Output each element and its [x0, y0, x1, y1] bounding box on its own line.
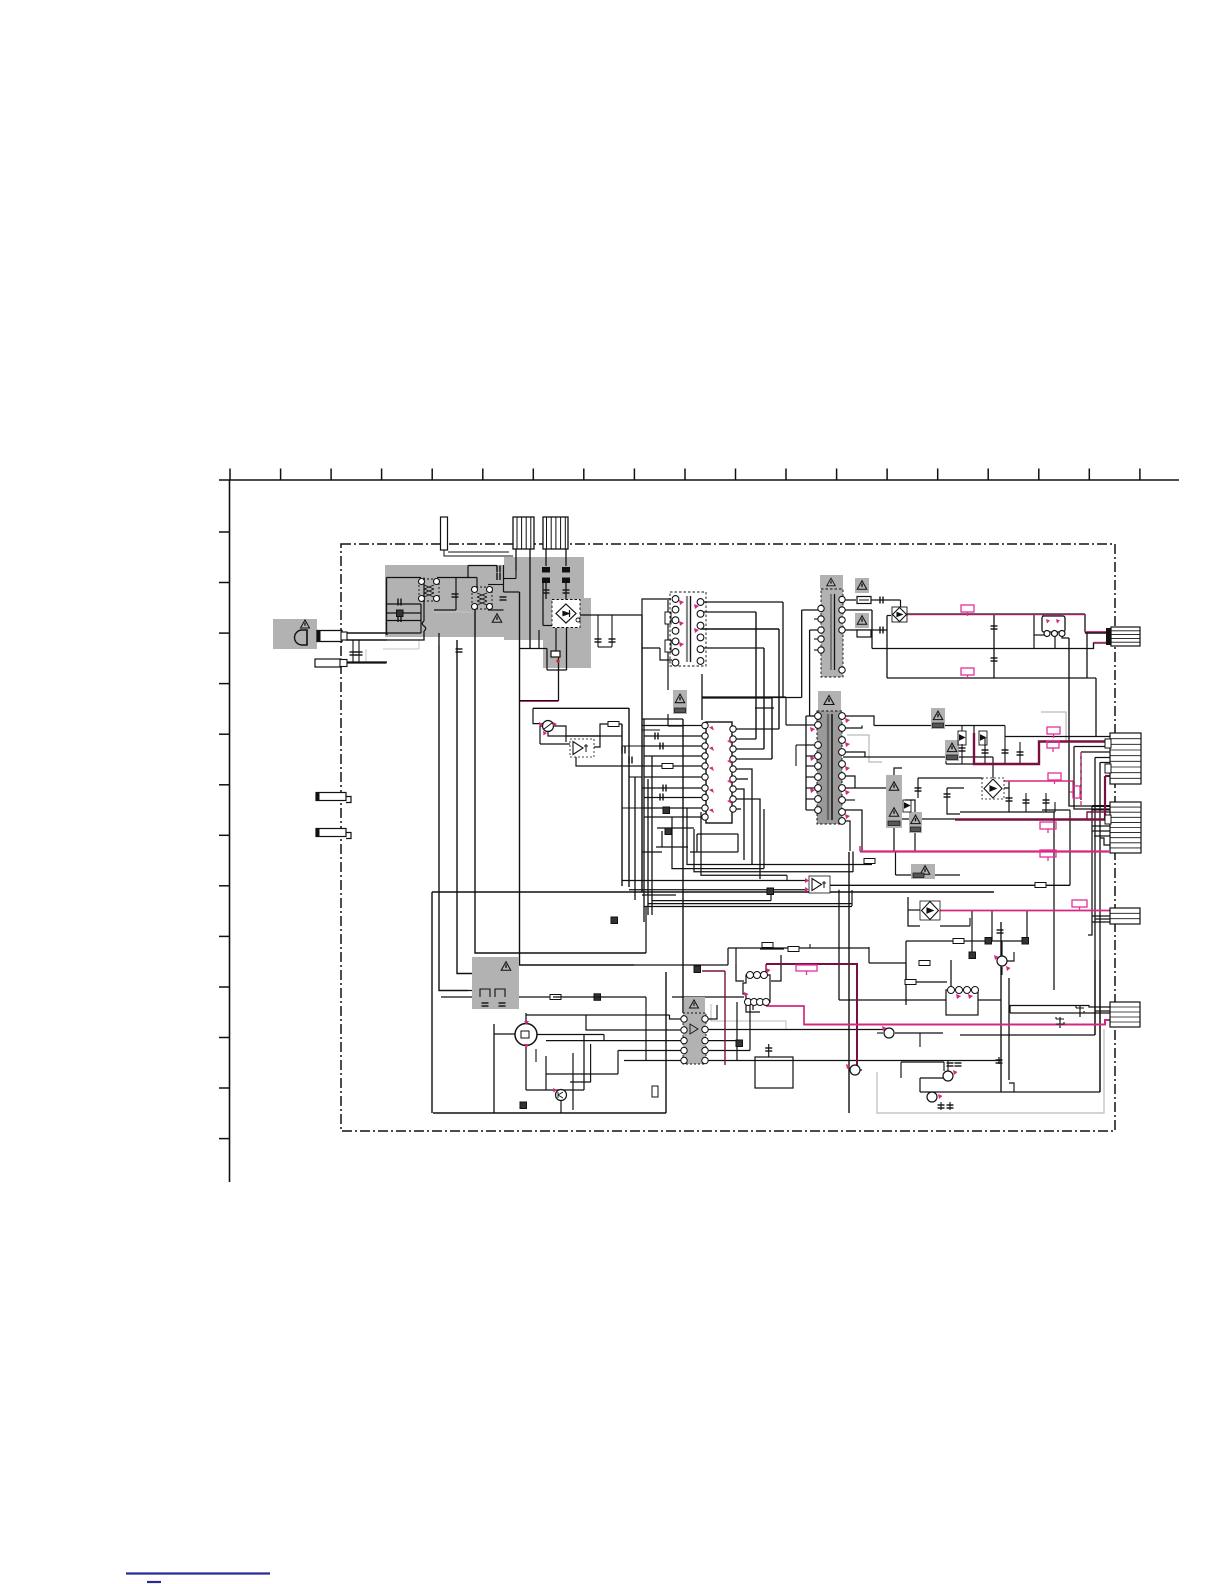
wire T601 L pin y725 — [806, 724, 818, 726]
capacitor — [499, 1003, 506, 1006]
wire y697.5 — [702, 697, 802, 699]
wire maroon v725 — [724, 971, 726, 1065]
capacitor LF2 out — [500, 597, 507, 600]
pink label (rail 2) — [1040, 850, 1056, 861]
wire D603 loop — [908, 897, 920, 926]
relay contact 1 — [1044, 631, 1050, 637]
warning box + fuse resistor R626 — [945, 740, 959, 761]
wire IC601 R4 — [733, 758, 772, 760]
wire Q603 stub — [919, 1033, 921, 1047]
wire rail 9V a — [843, 756, 946, 758]
capacitor on v994 b — [991, 658, 998, 661]
connector CN601 pin sep 4 — [530, 517, 532, 549]
pink label (rail 1) — [1040, 822, 1056, 833]
wire pink drop — [1072, 781, 1074, 786]
ruler left tick 8 — [219, 885, 230, 887]
wire T603 L pin2 — [802, 609, 821, 611]
wire into gray box 2 — [481, 973, 517, 975]
ruler top tick 16 — [987, 469, 989, 481]
wire y1000 row — [839, 999, 1001, 1001]
wire IC601 pin row L1 — [642, 725, 704, 727]
wire y997 row b — [553, 996, 646, 998]
wire y949 — [760, 948, 784, 950]
wire CN602 pin3 — [1074, 746, 1110, 748]
wire IC601 R2 — [733, 738, 756, 740]
ruler left tick 10 — [219, 986, 230, 988]
wire IC601 R7 drop — [733, 789, 744, 860]
diode (filled) — [665, 828, 672, 835]
wire y819 blk — [902, 818, 955, 820]
wire IC601 pin row L8 — [644, 797, 704, 799]
wire th in — [540, 725, 543, 727]
wire to D602 — [992, 757, 994, 779]
wire snub right — [737, 834, 739, 852]
wire C615 to bridge — [545, 583, 547, 599]
capacitor — [938, 1105, 945, 1108]
transistor Q607 — [997, 956, 1007, 966]
bridge diode D602 — [982, 778, 1004, 799]
diode (filled) — [767, 888, 774, 895]
wire y678 — [887, 677, 1087, 679]
wire v1034 — [1033, 614, 1035, 649]
wire T603 R2 — [843, 609, 872, 611]
wire v1070 — [1069, 810, 1071, 885]
wire CN602 pin1 — [1005, 736, 1110, 738]
wire v683 long to PC601 — [682, 719, 684, 1013]
capacitor — [563, 590, 570, 593]
wire filter left bus — [386, 578, 388, 636]
wire T601 R4 — [843, 752, 865, 757]
wire y778 link — [918, 777, 982, 779]
wire T601 link b — [796, 744, 806, 746]
wire zener1 drop — [1079, 1006, 1081, 1017]
wire cap drop b — [1004, 726, 1006, 738]
wire stair y889 — [629, 889, 806, 891]
wire v543 left of bridge — [542, 583, 544, 626]
wire gb drop2 — [501, 997, 503, 1009]
wire IC601 pin row L6 — [644, 776, 704, 778]
ruler top tick 13 — [836, 469, 838, 481]
pink label (5V) — [1047, 727, 1060, 738]
wire snubber bottom — [598, 646, 612, 648]
wire y678 ext — [1087, 677, 1096, 679]
wire y1035 — [960, 1034, 1095, 1036]
transformer T603 (gray) — [820, 575, 843, 589]
wire maroon: v857 drop — [766, 964, 857, 1066]
wire PC L5 feed — [624, 1060, 684, 1062]
gray block: relay driver area — [472, 957, 519, 1009]
ruler left tick 1 — [219, 531, 230, 533]
connector CN605 (right) — [1110, 908, 1140, 924]
wire v622 long — [621, 724, 623, 886]
connector CN602T pin sep 5 — [564, 517, 566, 549]
capacitor — [1043, 800, 1050, 803]
wire CN603 pin6 — [1092, 830, 1110, 832]
wire (shield 2, light) — [1041, 712, 1066, 741]
wire v783 — [782, 602, 784, 698]
wire v972 ext — [971, 941, 973, 956]
wire bridge plus out — [580, 614, 590, 616]
wire v1087 — [1086, 633, 1088, 679]
wire filter top bus 2 — [437, 577, 477, 579]
wire y948b — [728, 947, 810, 949]
gray block: AC line filter area — [385, 565, 521, 637]
wire maroon stub 2 — [765, 964, 767, 975]
wire zener stub — [969, 918, 971, 926]
wire y719 row — [642, 718, 683, 720]
wire Q607 out — [1007, 952, 1014, 961]
capacitor — [622, 747, 625, 754]
wire Q604 base — [920, 1077, 943, 1079]
wire y1090 — [526, 1089, 584, 1091]
connector CN601R line 1 — [1111, 630, 1140, 632]
capacitor — [915, 788, 922, 791]
warning box (comparator area) — [911, 864, 935, 879]
wire AC inlet to cord — [317, 634, 346, 636]
resistor — [905, 980, 916, 985]
wire (earth drop 2, light) — [365, 649, 367, 662]
wire row ext 1 — [622, 745, 642, 747]
wire v666 up — [665, 972, 667, 1113]
wire C616 to bridge — [565, 583, 567, 604]
wire v1081 — [1080, 752, 1082, 800]
diode (filled) — [969, 952, 976, 959]
wire row ext 2 — [629, 776, 642, 778]
wire fuse to PH601 — [869, 599, 901, 601]
capacitor — [947, 1063, 954, 1066]
wire v668 to R startup — [667, 600, 669, 690]
wire v853 — [852, 852, 854, 873]
wire stair y906 — [644, 906, 852, 908]
wire AC L inside — [387, 632, 421, 634]
wire elbow v1009 to y1092 — [1009, 1083, 1014, 1092]
wire v590 — [590, 1044, 592, 1082]
wire main bus B — [457, 640, 481, 974]
wire D602 left — [947, 787, 964, 789]
capacitor — [1006, 798, 1013, 801]
pink label (12V) — [796, 965, 817, 975]
wire maroon: branch to CN603 pin2 — [1087, 812, 1110, 820]
ruler left tick 5 — [219, 733, 230, 735]
wire AC line N — [346, 639, 387, 641]
wire rail 5V c — [962, 725, 1005, 727]
wire thermal fuse out — [558, 657, 560, 658]
wire CN603 pin5 — [1092, 825, 1110, 827]
wire T603 L pin3 stub — [814, 618, 821, 620]
wire to R627 — [843, 787, 886, 789]
pink label (CN601R a) — [961, 605, 974, 616]
transistor Q603 — [884, 1028, 894, 1038]
capacitor C616 (plates) — [562, 567, 570, 573]
wire y764 gnd rail — [946, 763, 1039, 765]
photocoupler diamond PH601 — [892, 607, 907, 622]
AC degauss plug lower — [315, 659, 341, 667]
wire cap drop b2 — [1004, 737, 1006, 764]
diode (filled) — [663, 807, 670, 814]
wire R startup out — [667, 714, 669, 726]
wire (chassis earth, light) — [383, 648, 419, 650]
wire cap row 2 — [387, 612, 422, 614]
wire y648 stub — [642, 647, 660, 649]
ruler left tick 7 — [219, 834, 230, 836]
wire main bus A — [439, 645, 468, 991]
wire gnd stub up — [945, 752, 947, 764]
wire T601 L pin y799 — [806, 798, 818, 800]
wire IC601 R8 drop — [733, 799, 760, 879]
wire CN602 pin1 drop — [545, 549, 547, 566]
diode (filled) — [611, 917, 618, 924]
wire IC602 gnd — [752, 1002, 754, 1010]
wire v573 — [572, 1053, 574, 1110]
wire into relay driver — [468, 990, 517, 992]
fuse resistor (top) — [857, 597, 871, 604]
wire CN602 pin4 — [1081, 751, 1110, 753]
wire PC R1 up — [705, 1005, 717, 1019]
wire v869 — [868, 947, 870, 963]
wire v728 — [727, 948, 729, 965]
wire top link 2 — [448, 551, 509, 553]
relay contact 3 — [1059, 631, 1065, 637]
wire T601 R1 to rail — [843, 716, 874, 726]
wire pink over CN601R b — [1094, 641, 1108, 643]
AC power plug P601 — [295, 630, 307, 645]
wire v1074 to CN603 — [1074, 747, 1110, 810]
IC602 regulator — [743, 975, 770, 1002]
wire IC601 pin row L3 — [642, 745, 704, 747]
wire v547 — [546, 649, 548, 671]
warning triangle W3 — [857, 616, 867, 625]
tall warning box R627 — [886, 775, 902, 828]
warning box + fuse resistor R628 — [909, 812, 922, 833]
wire PC R5 long row — [705, 1060, 1001, 1062]
wire blkrow — [906, 981, 947, 983]
capacitor degauss — [456, 649, 463, 652]
wire th out — [553, 726, 566, 742]
wire reg in — [494, 1033, 515, 1035]
capacitor — [1023, 800, 1030, 803]
resistor (vertical) near v647 — [652, 1086, 658, 1097]
capacitor — [595, 639, 602, 642]
wire J601 top feed — [768, 1044, 770, 1057]
wire T603 L pin5 stub — [814, 638, 821, 640]
wire v1100 long — [1099, 763, 1101, 1093]
wire varistor drop 1 — [352, 640, 354, 663]
capacitor (varistor pair) — [356, 652, 363, 655]
capacitor C615 (plates) — [542, 567, 550, 573]
wire filter top bus 1 — [387, 577, 422, 579]
relay drive diodes — [480, 989, 505, 997]
wire T601 R6 — [843, 776, 855, 788]
wire y1074 — [546, 1073, 618, 1075]
transformer T602 — [670, 592, 706, 666]
wire T601 R9 drop — [843, 821, 850, 851]
wire CN602 pin5 drop — [565, 549, 567, 566]
wire v635 — [634, 777, 636, 900]
wire y648 riser — [872, 643, 1107, 649]
wire v786 — [785, 697, 787, 725]
ruler horizontal line — [219, 479, 1179, 481]
wire IC601 pin row L7 — [642, 787, 704, 789]
wire CN605 pin3 — [1095, 918, 1110, 920]
wire v1092 long — [1088, 806, 1092, 935]
wire v809 to T601 — [810, 715, 814, 717]
comparator IC603 (shunt reg) — [809, 876, 830, 893]
wire main bus C — [475, 607, 646, 953]
connector CN601R line 2 — [1111, 634, 1140, 636]
diode (filled) — [694, 966, 701, 973]
connector CN601 pin sep 1 — [516, 517, 518, 549]
wire to T602 p7 — [660, 648, 672, 660]
wire v618 — [617, 1051, 619, 1075]
wire loop2 right — [763, 809, 765, 869]
wire rail 5V a — [874, 725, 932, 727]
wire to PH601 left — [887, 615, 891, 617]
capacitor — [629, 757, 632, 764]
capacitor — [655, 733, 658, 740]
wire y828 row — [657, 827, 694, 829]
capacitor at J601 — [765, 1048, 772, 1051]
wire AC N inside — [387, 631, 424, 640]
wire v1096 drop — [1095, 678, 1097, 737]
capacitor — [663, 785, 666, 792]
wire error amp out up — [594, 724, 622, 747]
wire T601 R8 drop — [843, 810, 862, 851]
wire cap pair drop — [998, 1057, 1000, 1064]
wire maroon: rail y819 — [955, 818, 1105, 820]
wire maroon: up to CN602 pin8 — [1104, 776, 1106, 820]
wire PC L4 feed — [618, 1050, 684, 1052]
wire maroon: 5V rail to CN602 — [974, 733, 1110, 764]
transistor Q604 — [943, 1071, 953, 1081]
wire stair mid2 — [694, 829, 853, 872]
diode D641 mark — [880, 597, 883, 604]
wire D602 low loop — [947, 788, 960, 814]
resistor on y997 — [550, 995, 561, 1000]
wire T601 R7 — [843, 799, 855, 801]
wire y997 to IC602 — [672, 996, 744, 998]
wire red overlay y701 — [520, 701, 559, 703]
connector CN602T pin sep 3 — [555, 517, 557, 549]
wire v737 — [736, 1002, 738, 1061]
wire y1013b to CN606 — [1010, 1012, 1110, 1014]
wire D611 top — [961, 726, 963, 732]
wire v906b — [905, 963, 907, 982]
wire (filter link, light) — [434, 611, 472, 613]
wire R628 up — [905, 800, 915, 812]
wire stair y880 — [622, 880, 806, 882]
wire to thermal fuse — [555, 628, 557, 651]
diode D612 boxed — [979, 731, 987, 745]
wire D602 out join — [1004, 781, 1009, 788]
wire CN601 pin1 drop — [515, 549, 517, 571]
bottom blue rule — [126, 1574, 270, 1583]
wire v652 — [651, 756, 653, 915]
diode D642 mark — [880, 627, 883, 634]
wire v421 — [420, 604, 422, 633]
pink label (vertical) — [1070, 786, 1080, 798]
ruler top tick 8 — [583, 469, 585, 481]
wire AC line L — [346, 632, 387, 634]
wire v809 — [809, 630, 811, 716]
wire stair y900 — [652, 900, 771, 902]
capacitor — [982, 750, 989, 753]
gray block: AC inlet — [273, 619, 317, 649]
ruler top tick 5 — [431, 469, 433, 481]
wire (earth drop, light) — [418, 640, 420, 649]
wire magenta: long rail y851 — [860, 850, 1109, 852]
wire y1092 — [920, 1091, 1100, 1093]
warning triangle (primary) — [492, 614, 502, 623]
wire varistor drop 2 — [358, 640, 360, 663]
wire snub row1 — [697, 833, 738, 835]
resistor — [608, 722, 619, 727]
wire T601 L pin y745 — [806, 744, 818, 746]
wire drop x1027 from rail y910 — [1026, 911, 1028, 941]
fuse F601 — [422, 621, 426, 631]
ruler left tick 13 — [219, 1138, 230, 1140]
wire R627 to rail — [893, 828, 895, 851]
wire IC601 R5 drop — [733, 769, 752, 865]
wire v901 — [900, 1062, 902, 1078]
wire v801 — [801, 610, 803, 698]
thermal fuse PS601 — [551, 651, 560, 657]
wire v646 ext — [645, 997, 647, 1060]
wire cap drop x536 — [535, 1049, 537, 1062]
wire startup join — [668, 725, 683, 727]
wire IC602 low — [746, 1002, 760, 1012]
transistor Q605 — [927, 1092, 937, 1102]
wire CN603 pin7 — [1094, 835, 1110, 837]
gray block: bridge rectifier area — [543, 598, 591, 668]
transistor Q602 — [556, 1090, 567, 1101]
wire bridge minus down — [566, 628, 568, 670]
wire y810 row — [1042, 809, 1070, 811]
wire IC602 out up — [771, 955, 781, 981]
line filter transformer L601 — [419, 579, 440, 602]
wire IC601 pin row L10 — [644, 816, 704, 818]
capacitor — [944, 794, 951, 797]
wire cap link a — [504, 578, 517, 580]
wire T602 sec 2 — [700, 647, 764, 649]
ruler left tick 12 — [219, 1087, 230, 1089]
capacitor — [543, 590, 550, 593]
wire y892 long bus — [432, 891, 994, 893]
ruler vertical line — [229, 480, 231, 1182]
wire thick CN601R pin1 — [1085, 631, 1107, 633]
capacitor — [947, 1105, 954, 1108]
wire CN605 pin4 — [1092, 921, 1110, 923]
wire row ext 3 — [622, 807, 642, 809]
relay contact 2 — [1052, 631, 1058, 637]
wire y698 link — [702, 697, 772, 699]
wire v1010 — [1009, 1005, 1011, 1013]
wire v920 — [919, 1078, 921, 1092]
wire (shield, light) — [847, 735, 882, 762]
capacitor (varistor pair) — [350, 652, 357, 655]
wire Q607 top — [1001, 941, 1003, 956]
wire cap drop b2 — [949, 1102, 951, 1110]
wire Q607 bottom — [1001, 967, 1003, 975]
wire IC601 pin row L4 — [644, 755, 704, 757]
pink label (CN601R b) — [961, 668, 974, 679]
ruler top tick 12 — [785, 469, 787, 481]
thermistor TH601 — [543, 721, 554, 732]
wire v849 long — [848, 852, 850, 1113]
wire y708 feedback bus — [533, 707, 629, 709]
wire th loop — [539, 726, 541, 744]
wire cap row 1 — [387, 603, 422, 605]
wire v756 drop — [755, 612, 757, 739]
